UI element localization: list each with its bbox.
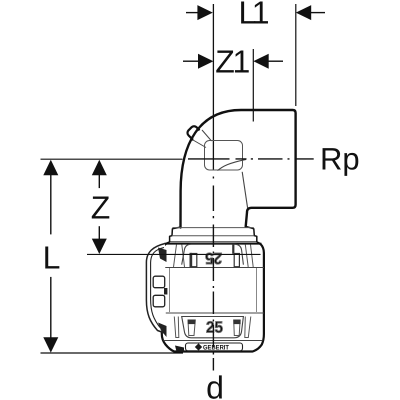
brand strip GEBERIT: [186, 343, 243, 351]
socket nut outline: [162, 242, 264, 351]
svg-text:GEBERIT: GEBERIT: [203, 344, 229, 351]
recessed panel: [182, 317, 244, 338]
inner wall line: [242, 172, 247, 208]
dimension Z: [92, 160, 107, 254]
window left: [192, 254, 197, 267]
middle band seams: [169, 268, 171, 312]
extension line center axis top: [212, 4, 214, 170]
rib in panel right: [234, 320, 240, 336]
rib in panel left: [188, 320, 195, 336]
boss plate on bend: [205, 141, 243, 171]
outside rib right: [245, 317, 251, 338]
nut band line lower: [162, 312, 264, 314]
pipe interior mask over tab: [187, 115, 225, 158]
nut band line upper: [162, 267, 264, 269]
svg-text:L: L: [43, 240, 61, 276]
window right: [234, 254, 239, 267]
inverted recess panel: [182, 244, 244, 265]
svg-text:Z: Z: [91, 190, 111, 226]
svg-text:Rp: Rp: [320, 142, 360, 177]
elbow body outline: [181, 110, 296, 228]
outside ribs left: [174, 245, 177, 268]
outside rib left: [174, 317, 179, 338]
dimension L: [43, 160, 58, 353]
flange below neck: [170, 226, 257, 242]
svg-text:d: d: [206, 369, 224, 400]
svg-text:Z1: Z1: [215, 43, 250, 79]
inner bend arc: [218, 159, 247, 170]
nut band line cap: [164, 340, 263, 342]
center line horizontal axis: [188, 158, 314, 160]
center line vertical axis: [212, 177, 214, 371]
clip tab inner lines: [193, 130, 212, 148]
upper knurl band: [174, 244, 254, 267]
svg-text:L1: L1: [239, 0, 270, 31]
dimension L1: [186, 5, 325, 20]
knurl band with 25 marking: [174, 317, 251, 338]
reference line pipe stop Z: [87, 253, 261, 255]
extension line L1 right: [295, 4, 297, 106]
dimension Z1: [183, 54, 283, 69]
extension line axis left: [41, 158, 183, 160]
clip tab on bend: [186, 125, 207, 146]
svg-text:25: 25: [206, 319, 223, 336]
extension line bottom face: [41, 352, 184, 354]
outside ribs right: [245, 245, 248, 268]
left clip on nut: [146, 244, 167, 338]
extension line Z1 right: [252, 49, 254, 122]
cap dark wedge: [175, 346, 184, 352]
nut top edge: [165, 243, 262, 245]
